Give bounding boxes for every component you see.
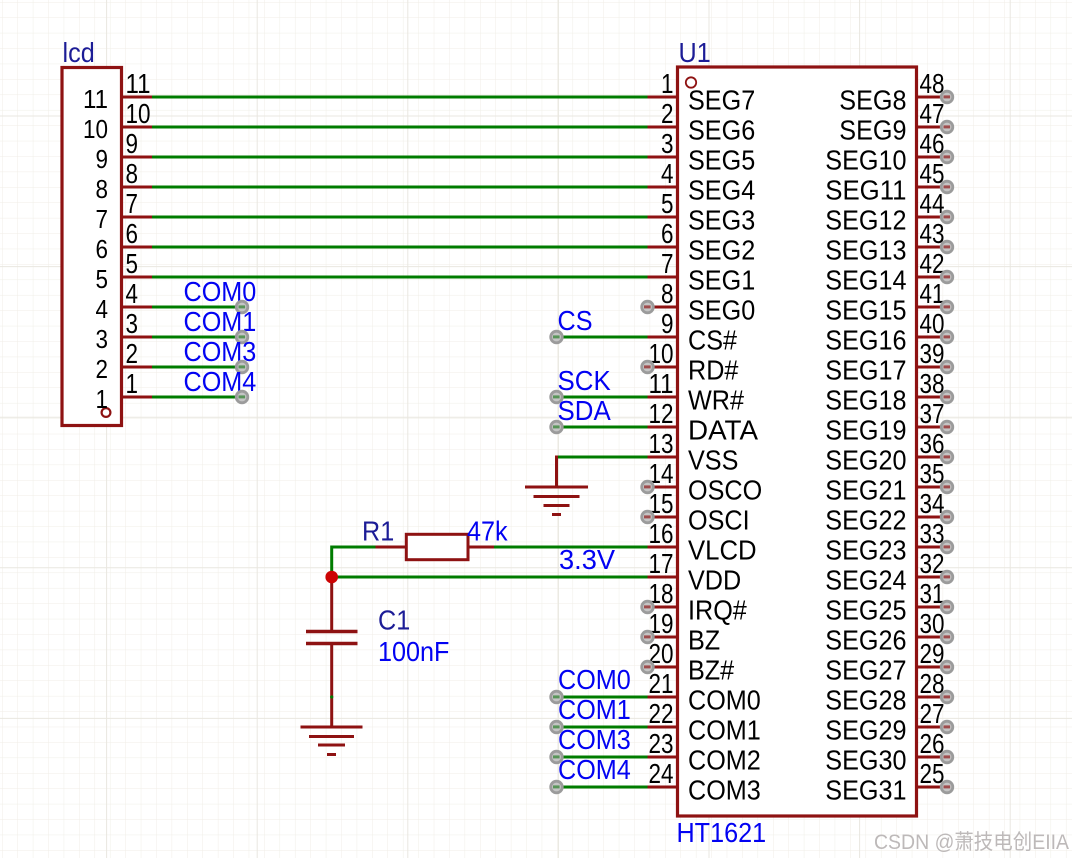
- wire C1 to ground: [330, 645, 333, 727]
- svg-text:11: 11: [83, 84, 108, 114]
- U1 pin 44 (SEG12): [825, 188, 947, 236]
- U1 pin 14 (OSCO): [648, 458, 763, 506]
- unconnected pad on U1 pin 46: [940, 150, 954, 164]
- junction dot artifact on C1-ground wire: [330, 695, 333, 698]
- U1 pin 32 (SEG24): [825, 548, 947, 596]
- U1 pin 25 (SEG31): [825, 758, 947, 806]
- svg-text:7: 7: [96, 204, 109, 234]
- U1 pin 23 (COM2): [648, 728, 761, 776]
- svg-text:23: 23: [649, 728, 674, 759]
- U1 pin 47 (SEG9): [839, 98, 947, 146]
- svg-text:3: 3: [126, 308, 139, 339]
- unconnected pad on U1 pin 42: [940, 270, 954, 284]
- svg-text:16: 16: [649, 518, 674, 549]
- U1 pin 41 (SEG15): [825, 278, 947, 326]
- unconnected pad on U1 pin 45: [940, 180, 954, 194]
- unconnected pad on U1 pin 25: [940, 780, 954, 794]
- pad / port COM1 (lcd side): [235, 330, 249, 344]
- svg-text:1: 1: [96, 384, 109, 414]
- unconnected pad on U1 pin 35: [940, 480, 954, 494]
- wire lcd pin 5 to U1 pin 7: [152, 276, 648, 279]
- wire lcd pin 7 to U1 pin 5: [152, 216, 648, 219]
- pad / port CS: [549, 330, 563, 344]
- wire net COM3 at lcd: [152, 366, 242, 369]
- svg-text:SEG18: SEG18: [825, 385, 906, 416]
- unconnected pad on U1 pin 15: [640, 510, 654, 524]
- U1 pin 2 (SEG6): [648, 98, 756, 146]
- svg-text:VSS: VSS: [688, 445, 738, 476]
- U1 pin 34 (SEG22): [825, 488, 947, 536]
- U1 pin 37 (SEG19): [825, 398, 947, 446]
- svg-text:SEG26: SEG26: [825, 625, 906, 656]
- unconnected pad on U1 pin 34: [940, 510, 954, 524]
- wire net SDA to U1: [557, 426, 648, 429]
- svg-text:SEG6: SEG6: [688, 115, 755, 146]
- resistor R1 right lead: [468, 546, 494, 549]
- U1 pin 1 (SEG7): [648, 68, 756, 116]
- unconnected pad on U1 pin 36: [940, 450, 954, 464]
- pad / port COM3 (lcd side): [235, 360, 249, 374]
- U1 pin 42 (SEG14): [825, 248, 947, 296]
- wire lcd pin 8 to U1 pin 4: [152, 186, 648, 189]
- svg-text:9: 9: [661, 308, 674, 339]
- wire net COM4 at lcd: [152, 396, 242, 399]
- svg-text:SEG7: SEG7: [688, 85, 755, 116]
- unconnected pad on U1 pin 29: [940, 660, 954, 674]
- svg-text:9: 9: [126, 128, 139, 159]
- pad / port COM1 (U1 side): [549, 720, 563, 734]
- svg-text:BZ#: BZ#: [688, 655, 735, 686]
- U1 pin 27 (SEG29): [825, 698, 947, 746]
- pad / port COM0 (U1 side): [549, 690, 563, 704]
- unconnected pad on U1 pin 41: [940, 300, 954, 314]
- svg-text:U1: U1: [679, 37, 711, 68]
- lcd pin 9: [96, 128, 153, 174]
- unconnected pad on U1 pin 8: [640, 300, 654, 314]
- lcd pin 10: [83, 98, 152, 144]
- svg-text:SEG13: SEG13: [825, 235, 906, 266]
- U1 pin 48 (SEG8): [839, 68, 947, 116]
- svg-text:12: 12: [649, 398, 674, 429]
- unconnected pad on U1 pin 39: [940, 360, 954, 374]
- wire net COM3 to U1: [557, 756, 648, 759]
- svg-text:10: 10: [126, 98, 151, 129]
- unconnected pad on U1 pin 20: [640, 660, 654, 674]
- resistor R1 body: [406, 534, 468, 559]
- wire lcd pin 10 to U1 pin 2: [152, 126, 648, 129]
- ground symbol below C1: [301, 727, 363, 755]
- lcd pin 1: [96, 368, 153, 414]
- junction node 3.3V: [325, 571, 338, 584]
- unconnected pad on U1 pin 47: [940, 120, 954, 134]
- svg-text:OSCO: OSCO: [688, 475, 762, 506]
- unconnected pad on U1 pin 32: [940, 570, 954, 584]
- svg-text:IRQ#: IRQ#: [688, 595, 747, 626]
- IC U1 body: [678, 67, 917, 816]
- U1 pin-1 indicator circle: [686, 77, 696, 87]
- svg-text:SDA: SDA: [558, 395, 611, 426]
- svg-text:100nF: 100nF: [378, 636, 449, 667]
- unconnected pad on U1 pin 31: [940, 600, 954, 614]
- svg-text:4: 4: [661, 158, 674, 189]
- wire net COM0 to U1: [557, 696, 648, 699]
- svg-text:SEG0: SEG0: [688, 295, 755, 326]
- wire junction down to C1: [330, 577, 333, 630]
- svg-text:SEG12: SEG12: [825, 205, 906, 236]
- svg-text:8: 8: [126, 158, 139, 189]
- U1 pin 35 (SEG21): [825, 458, 947, 506]
- wire ground stem vertical: [555, 456, 558, 488]
- U1 pin 33 (SEG23): [825, 518, 947, 566]
- lcd pin 8: [96, 158, 153, 204]
- svg-text:47k: 47k: [467, 516, 508, 547]
- svg-text:SEG15: SEG15: [825, 295, 906, 326]
- svg-text:C1: C1: [378, 605, 410, 636]
- pad / port COM4 (U1 side): [549, 780, 563, 794]
- svg-text:SEG19: SEG19: [825, 415, 906, 446]
- U1 pin 7 (SEG1): [648, 248, 756, 296]
- unconnected pad on U1 pin 43: [940, 240, 954, 254]
- svg-text:SEG1: SEG1: [688, 265, 755, 296]
- U1 pin 15 (OSCI): [648, 488, 750, 536]
- svg-text:SEG21: SEG21: [825, 475, 906, 506]
- svg-text:17: 17: [649, 548, 674, 579]
- unconnected pad on U1 pin 27: [940, 720, 954, 734]
- svg-text:CSDN @萧技电创EIIA: CSDN @萧技电创EIIA: [874, 831, 1069, 854]
- unconnected pad on U1 pin 37: [940, 420, 954, 434]
- unconnected pad on U1 pin 33: [940, 540, 954, 554]
- unconnected pad on U1 pin 26: [940, 750, 954, 764]
- svg-text:SEG8: SEG8: [839, 85, 906, 116]
- svg-text:SEG28: SEG28: [825, 685, 906, 716]
- svg-text:2: 2: [126, 338, 139, 369]
- svg-text:3: 3: [661, 128, 674, 159]
- U1 pin 8 (SEG0): [648, 278, 756, 326]
- svg-text:SEG4: SEG4: [688, 175, 755, 206]
- U1 pin 4 (SEG4): [648, 158, 756, 206]
- svg-text:BZ: BZ: [688, 625, 720, 656]
- svg-text:2: 2: [96, 354, 109, 384]
- U1 pin 3 (SEG5): [648, 128, 756, 176]
- U1 pin 31 (SEG25): [825, 578, 947, 626]
- svg-text:SEG11: SEG11: [825, 175, 906, 206]
- pad / port COM3 (U1 side): [549, 750, 563, 764]
- U1 pin 45 (SEG11): [825, 158, 947, 206]
- svg-text:SEG30: SEG30: [825, 745, 906, 776]
- wire net COM0 at lcd: [152, 306, 242, 309]
- U1 pin 11 (WR#): [648, 368, 745, 416]
- svg-text:11: 11: [126, 68, 151, 99]
- svg-text:SEG17: SEG17: [825, 355, 906, 386]
- svg-text:SEG5: SEG5: [688, 145, 755, 176]
- U1 pin 12 (DATA): [648, 398, 759, 446]
- unconnected pad on U1 pin 19: [640, 630, 654, 644]
- lcd pin 6: [96, 218, 153, 264]
- svg-text:2: 2: [661, 98, 674, 129]
- U1 pin 16 (VLCD): [648, 518, 757, 566]
- svg-text:5: 5: [661, 188, 674, 219]
- connector lcd body: [62, 68, 122, 426]
- svg-text:10: 10: [83, 114, 108, 144]
- svg-text:SEG24: SEG24: [825, 565, 906, 596]
- U1 pin 17 (VDD): [648, 548, 742, 596]
- unconnected pad on U1 pin 44: [940, 210, 954, 224]
- svg-text:SEG29: SEG29: [825, 715, 906, 746]
- unconnected pad on U1 pin 10: [640, 360, 654, 374]
- svg-text:CS: CS: [558, 305, 593, 336]
- U1 pin 6 (SEG2): [648, 218, 756, 266]
- unconnected pad on U1 pin 48: [940, 90, 954, 104]
- U1 pin 18 (IRQ#): [648, 578, 748, 626]
- svg-text:22: 22: [649, 698, 674, 729]
- svg-text:R1: R1: [362, 516, 394, 547]
- svg-text:1: 1: [126, 368, 139, 399]
- unconnected pad on U1 pin 28: [940, 690, 954, 704]
- svg-text:7: 7: [126, 188, 139, 219]
- svg-text:7: 7: [661, 248, 674, 279]
- U1 pin 21 (COM0): [648, 668, 761, 716]
- svg-text:SEG20: SEG20: [825, 445, 906, 476]
- U1 pin 46 (SEG10): [825, 128, 947, 176]
- pad / port SDA: [549, 420, 563, 434]
- svg-text:24: 24: [649, 758, 674, 789]
- svg-text:6: 6: [126, 218, 139, 249]
- wire net COM1 to U1: [557, 726, 648, 729]
- svg-text:SEG27: SEG27: [825, 655, 906, 686]
- lcd pin 3: [96, 308, 153, 354]
- svg-text:SCK: SCK: [558, 365, 611, 396]
- svg-text:COM1: COM1: [558, 694, 631, 725]
- svg-text:SEG10: SEG10: [825, 145, 906, 176]
- svg-text:3: 3: [96, 324, 109, 354]
- svg-text:8: 8: [96, 174, 109, 204]
- wire net COM1 at lcd: [152, 336, 242, 339]
- U1 pin 36 (SEG20): [825, 428, 947, 476]
- svg-text:COM3: COM3: [688, 775, 761, 806]
- unconnected pad on U1 pin 40: [940, 330, 954, 344]
- wire VSS pin13 to ground: [557, 456, 648, 459]
- svg-text:SEG14: SEG14: [825, 265, 906, 296]
- U1 pin 43 (SEG13): [825, 218, 947, 266]
- svg-text:4: 4: [126, 278, 139, 309]
- U1 pin 10 (RD#): [648, 338, 739, 386]
- svg-text:COM1: COM1: [688, 715, 761, 746]
- svg-text:9: 9: [96, 144, 109, 174]
- wire 3.3V to U1 pin17 VDD: [332, 576, 648, 579]
- U1 pin 39 (SEG17): [825, 338, 947, 386]
- resistor R1 left lead: [376, 546, 407, 549]
- U1 pin 29 (SEG27): [825, 638, 947, 686]
- svg-text:SEG16: SEG16: [825, 325, 906, 356]
- svg-text:4: 4: [96, 294, 109, 324]
- unconnected pad on U1 pin 30: [940, 630, 954, 644]
- svg-text:SEG22: SEG22: [825, 505, 906, 536]
- connector lcd pin-1 indicator circle: [102, 408, 111, 417]
- svg-text:RD#: RD#: [688, 355, 739, 386]
- unconnected pad on U1 pin 18: [640, 600, 654, 614]
- svg-text:SEG23: SEG23: [825, 535, 906, 566]
- svg-text:8: 8: [661, 278, 674, 309]
- ground symbol near U1 (VSS): [525, 487, 588, 515]
- U1 pin 22 (COM1): [648, 698, 761, 746]
- svg-text:lcd: lcd: [63, 37, 95, 68]
- lcd pin 2: [96, 338, 153, 384]
- pad / port COM4 (lcd side): [235, 390, 249, 404]
- svg-text:6: 6: [661, 218, 674, 249]
- U1 pin 9 (CS#): [648, 308, 738, 356]
- svg-text:COM3: COM3: [558, 724, 631, 755]
- lcd pin 5: [96, 248, 153, 294]
- U1 pin 38 (SEG18): [825, 368, 947, 416]
- wire lcd pin 11 to U1 pin 1: [152, 96, 648, 99]
- svg-text:HT1621: HT1621: [677, 817, 767, 848]
- U1 pin 20 (BZ#): [648, 638, 735, 686]
- svg-text:1: 1: [661, 68, 674, 99]
- lcd pin 4: [96, 278, 153, 324]
- svg-text:21: 21: [649, 668, 674, 699]
- pad / port COM0 (lcd side): [235, 300, 249, 314]
- svg-text:5: 5: [126, 248, 139, 279]
- U1 pin 40 (SEG16): [825, 308, 947, 356]
- svg-text:SEG2: SEG2: [688, 235, 755, 266]
- svg-text:13: 13: [649, 428, 674, 459]
- U1 pin 30 (SEG26): [825, 608, 947, 656]
- capacitor C1 bottom plate: [306, 642, 358, 645]
- svg-text:SEG9: SEG9: [839, 115, 906, 146]
- svg-text:VLCD: VLCD: [688, 535, 757, 566]
- svg-text:SEG3: SEG3: [688, 205, 755, 236]
- U1 pin 13 (VSS): [648, 428, 739, 476]
- U1 pin 28 (SEG28): [825, 668, 947, 716]
- svg-text:SEG31: SEG31: [825, 775, 906, 806]
- unconnected pad on U1 pin 38: [940, 390, 954, 404]
- svg-text:DATA: DATA: [688, 415, 758, 446]
- svg-text:3.3V: 3.3V: [559, 544, 615, 575]
- U1 pin 24 (COM3): [648, 758, 761, 806]
- svg-text:COM0: COM0: [558, 664, 631, 695]
- wire net CS to U1: [557, 336, 648, 339]
- svg-text:VDD: VDD: [688, 565, 741, 596]
- svg-text:COM0: COM0: [688, 685, 761, 716]
- lcd pin 11: [83, 68, 152, 114]
- svg-text:SEG25: SEG25: [825, 595, 906, 626]
- wire net SCK to U1: [557, 396, 648, 399]
- wire VLCD vertical to junction: [330, 546, 333, 578]
- U1 pin 26 (SEG30): [825, 728, 947, 776]
- svg-text:5: 5: [96, 264, 109, 294]
- wire lcd pin 9 to U1 pin 3: [152, 156, 648, 159]
- wire junction to R1 left lead: [332, 546, 377, 549]
- svg-text:CS#: CS#: [688, 325, 737, 356]
- svg-text:COM2: COM2: [688, 745, 761, 776]
- lcd pin 7: [96, 188, 153, 234]
- svg-text:WR#: WR#: [688, 385, 744, 416]
- pad / port SCK: [549, 390, 563, 404]
- wire lcd pin 6 to U1 pin 6: [152, 246, 648, 249]
- svg-text:COM4: COM4: [558, 754, 631, 785]
- wire net COM4 to U1: [557, 786, 648, 789]
- svg-text:OSCI: OSCI: [688, 505, 750, 536]
- svg-text:6: 6: [96, 234, 109, 264]
- capacitor C1 top plate: [306, 630, 358, 633]
- unconnected pad on U1 pin 14: [640, 480, 654, 494]
- svg-text:11: 11: [649, 368, 674, 399]
- wire R1 to U1 pin16 VLCD: [494, 546, 648, 549]
- U1 pin 19 (BZ): [648, 608, 721, 656]
- U1 pin 5 (SEG3): [648, 188, 756, 236]
